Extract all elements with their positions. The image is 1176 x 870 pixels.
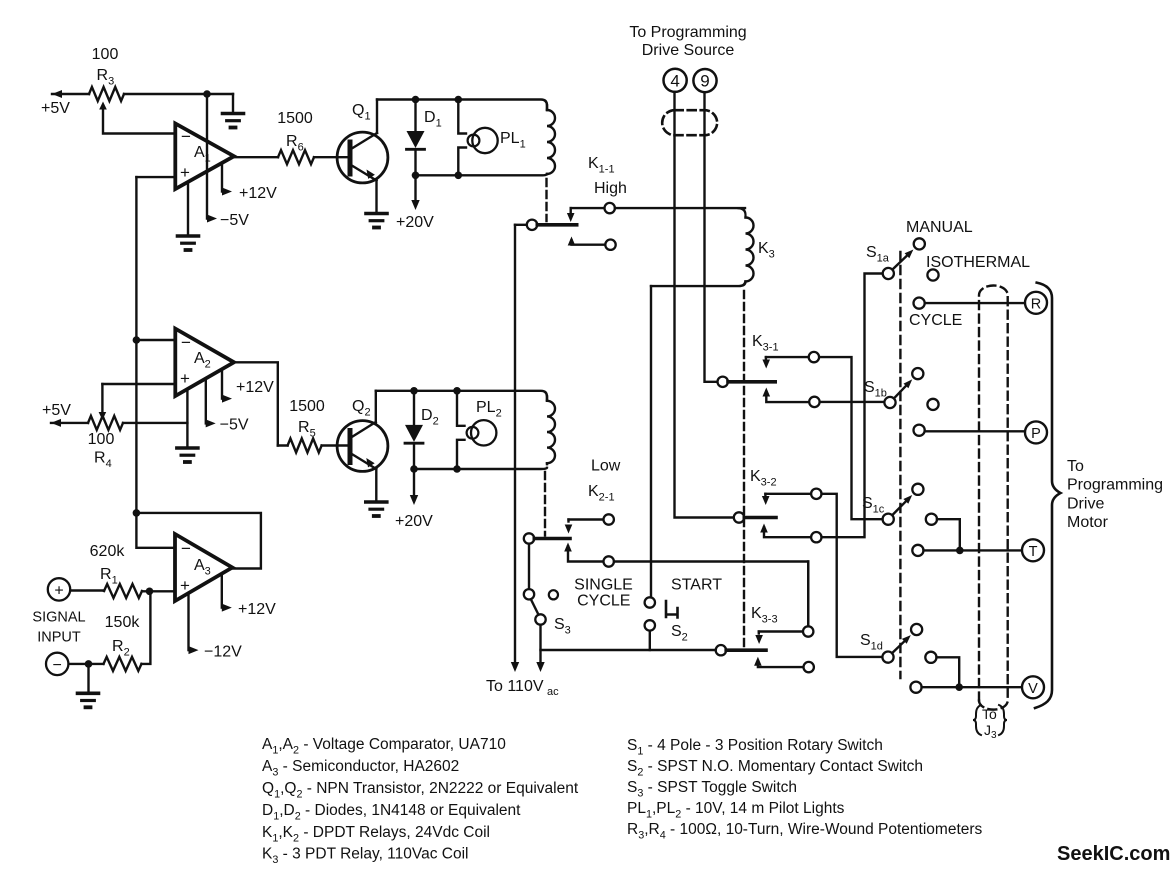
wire A3 feedback loop bbox=[136, 513, 261, 569]
node D2 top bbox=[410, 387, 418, 395]
svg-text:P: P bbox=[1031, 426, 1041, 442]
svg-text:1500: 1500 bbox=[277, 110, 313, 127]
node D1 bottom bbox=[412, 172, 420, 180]
terminal T bbox=[1022, 539, 1044, 561]
legend K3 bbox=[262, 846, 468, 867]
wire A1 noninverting input bbox=[136, 176, 175, 178]
wire Q1 emitter bbox=[375, 181, 377, 213]
terminal signal input + bbox=[48, 578, 70, 600]
label MANUAL bbox=[906, 219, 973, 236]
label S1a bbox=[866, 244, 890, 265]
svg-text:Drive Source: Drive Source bbox=[642, 42, 735, 59]
wire top rail K1 bbox=[377, 100, 547, 110]
wire Q2 collector bbox=[375, 391, 377, 424]
svg-text:MANUAL: MANUAL bbox=[906, 219, 973, 236]
connector bracket bbox=[1035, 283, 1061, 708]
node D2 bottom bbox=[410, 465, 418, 473]
label Low bbox=[591, 458, 621, 475]
svg-text:1500: 1500 bbox=[289, 398, 325, 415]
mechanical link K2 (dashed) bbox=[544, 472, 546, 536]
supply +12V (A2) bbox=[222, 370, 274, 403]
relay contact K3-3 lower throw bbox=[754, 657, 814, 673]
svg-text:R: R bbox=[1031, 296, 1041, 312]
node PL1 top bbox=[455, 96, 463, 104]
svg-text:SINGLE: SINGLE bbox=[574, 577, 633, 594]
switch S1b bbox=[884, 368, 938, 436]
ground (R3 rail) bbox=[223, 94, 244, 128]
node A2 inverting input bbox=[133, 336, 141, 344]
svg-text:9: 9 bbox=[700, 72, 709, 91]
label START bbox=[671, 577, 722, 594]
label R3 value bbox=[92, 46, 119, 88]
switch S3 bbox=[524, 589, 558, 625]
transistor Q1 bbox=[337, 132, 388, 183]
svg-text:START: START bbox=[671, 577, 722, 594]
wire start line bbox=[541, 649, 716, 651]
node junction R3/ground bbox=[203, 90, 211, 98]
svg-text:SeekIC.com: SeekIC.com bbox=[1057, 843, 1170, 865]
label Q2 bbox=[352, 398, 371, 419]
label To 110Vac bbox=[486, 678, 559, 698]
svg-text:T: T bbox=[1029, 544, 1038, 560]
svg-text:−12V: −12V bbox=[204, 644, 242, 661]
supply +20V (D1) bbox=[396, 175, 434, 231]
label S2 bbox=[671, 623, 688, 644]
svg-text:SIGNAL: SIGNAL bbox=[32, 610, 85, 626]
legend A1 A2 bbox=[262, 736, 506, 757]
label High bbox=[594, 180, 627, 197]
relay contact K3-1 upper throw bbox=[762, 352, 882, 519]
wire S1b cycle to P bbox=[925, 430, 1025, 432]
label S1d bbox=[860, 632, 883, 653]
wire Q2 emitter bbox=[375, 469, 377, 501]
svg-text:−: − bbox=[181, 333, 191, 352]
wire S1d cycle to V bbox=[922, 686, 1022, 688]
label S1b bbox=[864, 379, 887, 400]
wire bottom rail K2 bbox=[414, 468, 547, 469]
switch S2 (start) bbox=[645, 597, 678, 650]
ground (A1) bbox=[178, 182, 199, 250]
supply -5V (A1) bbox=[207, 94, 249, 229]
label R1 value bbox=[90, 543, 126, 587]
label ISOTHERMAL bbox=[926, 254, 1030, 271]
label R6 value bbox=[277, 110, 313, 154]
svg-text:−5V: −5V bbox=[220, 417, 249, 434]
label S3 bbox=[554, 616, 571, 637]
wire A2 noninverting input bbox=[102, 383, 175, 385]
ground (signal input) bbox=[78, 664, 99, 707]
terminal 4 bbox=[664, 69, 687, 92]
wire S1c cycle to T bbox=[924, 549, 1023, 551]
svg-text:−5V: −5V bbox=[220, 212, 249, 229]
op-amp A1 bbox=[175, 124, 234, 190]
wire A1+/A2-/A3 node vertical bbox=[135, 177, 137, 513]
wire A2 inverting input bbox=[136, 339, 175, 341]
node S1c tie bbox=[956, 547, 964, 555]
resistor R2 bbox=[68, 591, 151, 671]
label K3-3 bbox=[751, 605, 778, 626]
svg-text:V: V bbox=[1028, 681, 1038, 697]
transistor Q2 bbox=[337, 421, 388, 472]
svg-text:+5V: +5V bbox=[42, 402, 71, 419]
supply -5V (A2) bbox=[206, 379, 249, 434]
svg-text:+: + bbox=[54, 582, 63, 599]
label S1c bbox=[862, 495, 885, 516]
node A3 noninverting input bbox=[146, 588, 154, 596]
svg-text:+: + bbox=[180, 369, 190, 388]
label K3 bbox=[758, 240, 775, 261]
relay contact K3-2 common bbox=[734, 512, 776, 522]
svg-text:Motor: Motor bbox=[1067, 514, 1109, 531]
label SINGLE CYCLE bbox=[574, 577, 633, 610]
svg-text:+: + bbox=[180, 163, 190, 182]
label +5V (R3) bbox=[41, 100, 70, 117]
resistor R1 bbox=[70, 584, 175, 598]
legend S1 bbox=[627, 737, 883, 758]
diode D2 bbox=[405, 391, 423, 469]
ground (Q1 emitter) bbox=[366, 214, 387, 228]
label K1-1 bbox=[588, 155, 615, 176]
supply +12V (A1) bbox=[222, 163, 277, 202]
svg-text:To: To bbox=[982, 706, 997, 722]
svg-text:+20V: +20V bbox=[395, 513, 433, 530]
label PL2 bbox=[476, 399, 502, 420]
ground (Q2 emitter) bbox=[366, 502, 387, 516]
label To J3 bbox=[973, 705, 1007, 741]
label To Programming Drive Source bbox=[629, 24, 746, 59]
label PL1 bbox=[500, 130, 526, 151]
svg-text:To: To bbox=[1067, 458, 1084, 475]
svg-text:ISOTHERMAL: ISOTHERMAL bbox=[926, 254, 1030, 271]
switch S1d bbox=[882, 624, 959, 693]
wire K2-1 common to S3 bbox=[528, 544, 530, 589]
node signal ground bbox=[85, 660, 93, 668]
svg-text:−: − bbox=[181, 127, 191, 146]
svg-text:4: 4 bbox=[670, 71, 679, 90]
svg-text:Drive: Drive bbox=[1067, 496, 1104, 513]
wire bottom rail K1 bbox=[416, 174, 548, 175]
pilot light PL2 bbox=[457, 391, 496, 469]
label R2 value bbox=[105, 614, 141, 659]
svg-text:−: − bbox=[53, 657, 62, 674]
node PL2 bottom bbox=[453, 465, 461, 473]
wire top rail K2 bbox=[376, 391, 547, 400]
terminal V bbox=[1022, 676, 1044, 698]
wire S1a cycle to R bbox=[925, 302, 1025, 304]
relay contact K3-2 lower throw bbox=[760, 274, 882, 543]
relay contact K1-1 high throw bbox=[567, 203, 745, 222]
potentiometer R4 bbox=[51, 384, 187, 430]
svg-text:−: − bbox=[181, 539, 191, 558]
legend S3 bbox=[627, 779, 797, 800]
relay contact K3-1 lower throw bbox=[763, 388, 885, 408]
relay contact K3-1 common bbox=[718, 377, 776, 387]
label K3-1 bbox=[752, 333, 779, 354]
svg-text:100: 100 bbox=[92, 46, 119, 63]
svg-text:100: 100 bbox=[88, 431, 115, 448]
svg-text:150k: 150k bbox=[105, 614, 141, 631]
legend D1 D2 bbox=[262, 802, 521, 823]
supply +20V (D2) bbox=[395, 469, 433, 530]
svg-text:Programming: Programming bbox=[1067, 477, 1163, 494]
watermark SeekIC.com bbox=[1057, 843, 1170, 865]
svg-text:+12V: +12V bbox=[236, 379, 274, 396]
relay contact K3-3 common bbox=[716, 645, 766, 655]
label +5V (R4) bbox=[42, 402, 71, 419]
label R4 value bbox=[88, 431, 115, 470]
supply +12V (A3) bbox=[222, 574, 276, 618]
svg-text:CYCLE: CYCLE bbox=[909, 312, 962, 329]
svg-text:To 110V: To 110V bbox=[486, 678, 544, 695]
relay contact K3-3 upper throw bbox=[755, 562, 813, 645]
label D2 bbox=[421, 407, 439, 428]
mechanical link K3 (dashed) bbox=[743, 291, 745, 648]
svg-text:620k: 620k bbox=[90, 543, 126, 560]
cable sheath (dashed) bbox=[979, 286, 1008, 710]
ground (A2) bbox=[177, 390, 198, 462]
terminal 9 bbox=[693, 69, 716, 92]
relay contact K2-1 upper throw bbox=[565, 514, 614, 533]
svg-text:High: High bbox=[594, 180, 627, 197]
relay coil K3 bbox=[651, 208, 754, 286]
svg-text:+5V: +5V bbox=[41, 100, 70, 117]
wire K1-1 common to 110Vac bbox=[511, 225, 519, 672]
supply -12V (A3) bbox=[189, 593, 243, 661]
label K3-2 bbox=[750, 468, 777, 489]
wire A3 inverting input bbox=[136, 513, 175, 548]
svg-text:+12V: +12V bbox=[239, 185, 277, 202]
label K2-1 bbox=[588, 483, 615, 504]
svg-text:ac: ac bbox=[547, 686, 559, 698]
relay contact K1-1 common bbox=[515, 220, 577, 230]
relay contact K2-1 common bbox=[524, 533, 570, 543]
switch S1a bbox=[883, 238, 939, 308]
op-amp A2 bbox=[175, 329, 234, 396]
svg-text:CYCLE: CYCLE bbox=[577, 593, 630, 610]
label To Programming Drive Motor bbox=[1067, 458, 1163, 531]
mechanical link S1 gang (dashed) bbox=[899, 252, 901, 678]
potentiometer R3 bbox=[52, 87, 233, 134]
terminal P bbox=[1025, 421, 1047, 443]
svg-text:+20V: +20V bbox=[396, 214, 434, 231]
pilot light PL1 bbox=[458, 100, 497, 176]
relay coil K1 bbox=[547, 106, 555, 175]
legend R3 R4 bbox=[627, 821, 983, 842]
mechanical link K1 (dashed) bbox=[545, 179, 547, 221]
node PL2 top bbox=[453, 387, 461, 395]
wire S3 to 110Vac bbox=[536, 625, 544, 672]
terminal R bbox=[1025, 292, 1047, 314]
legend PL1 PL2 bbox=[627, 800, 845, 821]
svg-text:+12V: +12V bbox=[238, 601, 276, 618]
svg-text:INPUT: INPUT bbox=[37, 630, 81, 646]
relay contact K2-1 lower throw (single cycle) bbox=[564, 543, 808, 627]
relay contact K1-1 lower throw bbox=[568, 237, 616, 250]
node S1d tie bbox=[955, 683, 963, 691]
label Q1 bbox=[352, 102, 371, 123]
wire A2 output bbox=[234, 362, 278, 445]
resistor R5 bbox=[278, 439, 348, 453]
wire terminal 4 to K3-2 common bbox=[675, 92, 734, 518]
legend Q1 Q2 bbox=[262, 780, 579, 801]
label R5 value bbox=[289, 398, 325, 440]
wire terminal 9 to K3-1 common bbox=[705, 92, 718, 382]
node D1 top bbox=[412, 96, 420, 104]
legend S2 bbox=[627, 758, 923, 779]
svg-text:To Programming: To Programming bbox=[629, 24, 746, 41]
op-amp A3 bbox=[175, 534, 232, 601]
svg-text:Low: Low bbox=[591, 458, 621, 475]
cable marker (dashed oval) bbox=[662, 110, 717, 135]
relay coil K2 bbox=[547, 397, 555, 465]
switch S1c bbox=[883, 484, 960, 556]
node PL1 bottom bbox=[455, 172, 463, 180]
legend K1 K2 bbox=[262, 824, 490, 845]
node A3 feedback bbox=[133, 509, 141, 517]
wire Q1 collector bbox=[376, 100, 378, 134]
terminal signal input - bbox=[46, 653, 68, 675]
legend A3 bbox=[262, 758, 459, 779]
resistor R6 bbox=[234, 150, 348, 164]
label D1 bbox=[424, 109, 442, 130]
relay contact K3-2 upper throw bbox=[762, 489, 883, 657]
wire K3 to S2 bbox=[650, 286, 652, 597]
label CYCLE bbox=[909, 312, 962, 329]
diode D1 bbox=[407, 100, 425, 176]
label SIGNAL INPUT bbox=[32, 610, 85, 646]
